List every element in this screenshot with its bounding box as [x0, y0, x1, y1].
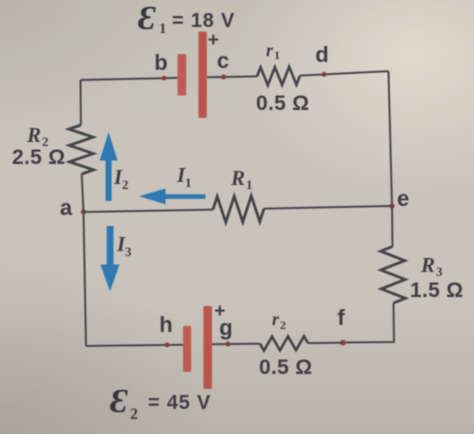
label E2 = 45 V [110, 383, 211, 423]
label r1 [266, 40, 280, 62]
wire left vertical (R2 up to top-left corner) [80, 80, 82, 125]
node label f [337, 305, 345, 330]
node label h [159, 312, 172, 337]
node label e [397, 186, 409, 211]
label E1 = 18 V [138, 0, 235, 37]
current arrow I3 (downward) [101, 226, 120, 292]
node g [226, 342, 231, 347]
resistor R3 [381, 247, 406, 304]
plus sign of E2 [214, 301, 225, 322]
value 1.5 ohm (R3) [410, 279, 463, 302]
label r2 [272, 309, 286, 332]
resistor R2 [69, 125, 94, 174]
plus sign of E1 [208, 30, 219, 51]
battery E2 positive plate (tall bar) [203, 306, 212, 389]
resistor R1 [213, 196, 264, 223]
node a [81, 209, 86, 214]
wire right vertical (R3 to bottom-right corner) [343, 303, 394, 343]
value 0.5 ohm (r2) [259, 356, 312, 379]
node e [389, 203, 394, 208]
node label a [60, 195, 73, 220]
current label I2 [113, 165, 129, 192]
battery E1 positive plate (tall bar) [198, 32, 206, 119]
current label I1 [176, 163, 192, 190]
node f [340, 340, 346, 346]
wire right vertical (corner d down to node e) [389, 71, 393, 206]
current label I3 [116, 232, 132, 259]
label R3 [420, 253, 443, 279]
resistor r2 [260, 336, 308, 350]
label R1 [230, 166, 253, 192]
resistor r1 [257, 67, 300, 85]
wire left vertical (a up to resistor R2) [82, 174, 84, 212]
battery E2 negative plate (short bar) [183, 326, 191, 372]
wire top (r1 to corner d) [300, 71, 389, 75]
current arrow I2 (upward) [100, 132, 118, 201]
label R2 [26, 123, 49, 149]
battery E1 negative plate (short bar) [178, 54, 187, 96]
wire top-left horizontal (corner to battery E1 negative bar) [81, 78, 179, 80]
wire right vertical (e to resistor R3) [391, 206, 394, 247]
node b [162, 76, 167, 81]
wire bottom (f to resistor r2) [308, 342, 343, 344]
node d [322, 72, 327, 77]
node label c [217, 48, 229, 73]
node label b [154, 50, 167, 75]
value 0.5 ohm (r1) [256, 92, 309, 115]
wire bottom-left (E2 negative bar to corner) [86, 345, 183, 346]
current arrow I1 (leftward) [139, 189, 206, 205]
wire left vertical (bottom corner up to node a) [84, 212, 87, 346]
node label d [315, 42, 328, 67]
value 2.5 ohm (R2) [12, 146, 65, 169]
wire top-right horizontal (E1 positive to resistor r1) [207, 75, 257, 78]
wire middle (R1 to e) [264, 206, 392, 209]
wire middle (a to R1) [84, 210, 214, 212]
node c [221, 75, 226, 80]
wire bottom (r2 to node g and battery E2 positive) [212, 343, 260, 346]
node label g [219, 315, 232, 340]
node h [165, 343, 170, 348]
